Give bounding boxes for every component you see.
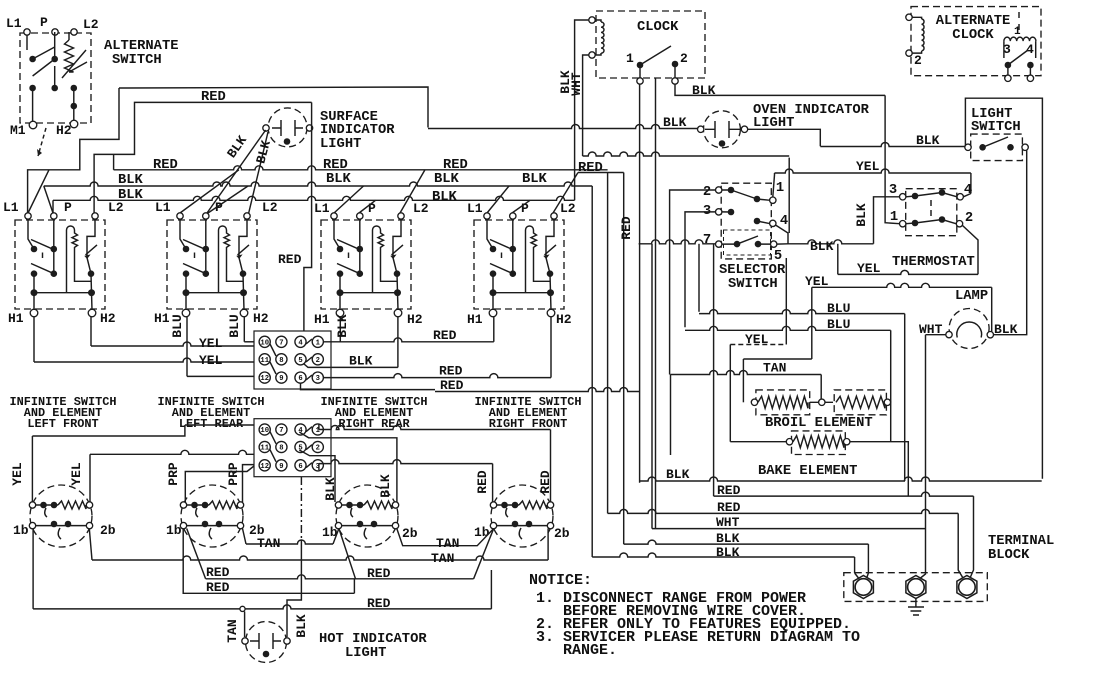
svg-text:11: 11 (260, 357, 269, 365)
svg-text:1: 1 (626, 51, 634, 66)
alternate clock motor coil (922, 19, 924, 51)
infinite switch 2 P drop (205, 219, 207, 274)
wire BLK pin5 to unit3 TL (299, 450, 335, 502)
surface unit 1 terminal 2b (86, 522, 92, 528)
wire TAN y374 (671, 371, 822, 375)
wire RED 1b-unit2 down (183, 529, 354, 594)
wire thermostat t4 connect (963, 194, 971, 197)
infinite switch 2 terminal H1 (182, 309, 190, 317)
svg-text:L2: L2 (413, 201, 429, 216)
svg-text:RED: RED (153, 158, 178, 173)
wire WHT lamp connect (926, 334, 946, 336)
surface unit 1 switch mark (58, 528, 61, 539)
wire BLU1 up (698, 244, 700, 312)
wire RED x607 down (607, 173, 609, 514)
svg-text:2: 2 (316, 445, 320, 453)
svg-text:BLK: BLK (326, 172, 352, 187)
surface unit 2 element resistor (187, 504, 209, 506)
wire RED feed lower staircase A (94, 102, 312, 213)
surface indicator light filament bars (272, 120, 303, 136)
svg-text:9: 9 (279, 463, 283, 471)
surface unit 3 element dots (346, 502, 353, 509)
svg-text:BLK: BLK (522, 172, 548, 187)
wire staircase B to L1 (28, 88, 119, 213)
svg-text:RED: RED (206, 580, 230, 595)
surface unit 3 terminal 2b (392, 522, 398, 528)
wire YEL y173 (775, 169, 971, 173)
infinite switch 4 terminal L1 (484, 213, 490, 219)
thermostat dashed box (906, 189, 957, 236)
svg-text:2: 2 (914, 53, 922, 68)
wire BLK clock to thermostat t1 (885, 95, 899, 223)
svg-text:HOT INDICATOR: HOT INDICATOR (319, 632, 427, 647)
oven indicator light left terminal (698, 126, 704, 132)
infinite switch 1 bottom bus (34, 293, 92, 310)
svg-text:8: 8 (279, 445, 283, 453)
wire YEL selector t1 up (773, 173, 775, 197)
infinite switch 1 contact dots (31, 246, 38, 253)
infinite switch 2 contact dots (183, 246, 190, 253)
infinite switch 2 terminal H2 (240, 309, 248, 317)
svg-text:12: 12 (260, 375, 269, 383)
infinite switch 3 contact arm lower (337, 264, 358, 273)
surface unit 4 switch mark (519, 528, 522, 539)
selector contact dots row1 (728, 187, 735, 194)
infinite switch 2 wiper arrow (238, 245, 250, 255)
wire clock dot2 to terminal (674, 67, 676, 78)
wire BLK hot light up (287, 540, 301, 637)
svg-text:L2: L2 (262, 200, 278, 215)
wire BLK lamp right (994, 151, 1027, 335)
selector terminal 3 (716, 209, 722, 215)
surface unit 4 limiter mark (506, 508, 508, 517)
bake element dashed box (792, 431, 846, 455)
wire RED 1b-unit2 diagonal (187, 529, 206, 579)
wire WHT riser x652 (651, 244, 653, 529)
terminal block lug 3 hex (957, 576, 977, 599)
wire term2 feed (918, 335, 926, 580)
infinite switch 2 terminal P (203, 213, 209, 219)
infinite switch box 3 dashed outline (321, 220, 411, 309)
hot indicator light left terminal (242, 638, 248, 644)
alternate switch S1 dashed box (20, 33, 91, 123)
bake element resistor (793, 436, 844, 448)
wire RED 1b bus (206, 575, 474, 579)
wire RED long left 1b-unit1 (32, 529, 34, 609)
svg-text:YEL: YEL (745, 332, 769, 347)
wire RED diag to 1b-unit4 (474, 529, 494, 579)
block1 pin 11 circled number (259, 354, 270, 365)
infinite switch 1 left column to junction (33, 274, 35, 310)
selector contact arm row2 (722, 212, 769, 224)
wire YEL2 x730 down (729, 345, 731, 442)
surface unit 1 terminal 1b (29, 522, 35, 528)
hot indicator light right terminal (284, 638, 290, 644)
terminal L2 of alternate switch (71, 29, 77, 35)
wire BLK x623 down (623, 173, 625, 545)
block1 pin 2 circled number (312, 354, 323, 365)
infinite switch 3 bottom bus (340, 293, 398, 310)
thermostat terminal 2 (956, 221, 962, 227)
svg-text:1: 1 (316, 339, 321, 347)
svg-text:10: 10 (260, 339, 269, 347)
svg-text:H2: H2 (253, 311, 269, 326)
infinite switch box 2 dashed outline (167, 220, 257, 309)
infinite switch 4 wiper arrow (545, 245, 557, 255)
svg-text:BLK: BLK (854, 203, 869, 227)
svg-text:BLK: BLK (294, 614, 309, 638)
svg-text:2: 2 (703, 185, 711, 200)
selector terminal 7 (716, 241, 722, 247)
svg-text:YEL: YEL (10, 462, 25, 486)
alternate clock coil terminal 2 (906, 50, 912, 56)
oven lamp left terminal (946, 331, 952, 337)
surface indicator light dot (284, 138, 291, 145)
surface unit 1 element dots (40, 502, 47, 509)
wire BLU H1 box2 down (186, 317, 188, 376)
block1 pin 3 circled number (312, 372, 323, 383)
wire thermostat t2 YEL down (963, 226, 979, 275)
infinite switch 3 terminal L1 (331, 213, 337, 219)
svg-text:YEL: YEL (69, 462, 84, 486)
svg-text:BLK: BLK (349, 354, 373, 369)
svg-text:WHT: WHT (716, 515, 740, 530)
terminal block lug 2 circle (908, 579, 925, 596)
wire YEL2 x786 down (785, 258, 787, 345)
svg-text:7: 7 (279, 339, 283, 347)
bus BLK upper (y187) (44, 182, 592, 186)
thermostat contact arm row1 (906, 193, 957, 197)
infinite switch 4 terminal L2 (551, 213, 557, 219)
svg-text:RED: RED (367, 596, 391, 611)
wire RED y513 (608, 509, 959, 513)
infinite switch 3 heater hairpin resistor (373, 226, 398, 293)
infinite switch 3 terminal P (357, 213, 363, 219)
alternate clock dashed box (911, 7, 1041, 76)
wire WHT y528 (652, 528, 926, 530)
broil element left terminal (751, 399, 757, 405)
oven lamp filament arc (957, 322, 982, 338)
light switch dashed box (971, 134, 1023, 161)
thermostat contact dots row2 (912, 220, 919, 227)
wire PRP block2 to unit2 TL (185, 466, 254, 502)
terminal L1 of alternate switch (24, 29, 30, 35)
diag arm box1 L1 to RED bus (28, 170, 49, 213)
wire clock t2b down (655, 78, 657, 529)
svg-text:RANGE.: RANGE. (563, 642, 617, 659)
svg-text:12: 12 (260, 463, 269, 471)
svg-text:RED: RED (717, 483, 741, 498)
wire PRP block2 to unit2 TR (243, 465, 255, 502)
terminal P of alternate switch (52, 29, 58, 35)
svg-text:2: 2 (316, 357, 320, 365)
svg-text:H2: H2 (56, 123, 72, 138)
diag arm box3 L2 to RED bus (400, 170, 425, 213)
block2 pin 3 circled number (312, 460, 323, 471)
bus BLK lower (y201) (53, 196, 575, 200)
svg-text:9: 9 (279, 375, 283, 383)
thermostat terminal 4 (957, 194, 963, 200)
svg-text:CLOCK: CLOCK (637, 20, 679, 35)
wire RED feed upper (y87) (119, 87, 428, 128)
surface unit 2 terminal 2b (237, 522, 243, 528)
svg-text:RED: RED (619, 216, 634, 240)
hot indicator light dashed circle (246, 622, 287, 663)
broil element middle terminal (819, 399, 825, 405)
wire light switch frame (965, 98, 1042, 479)
svg-text:5: 5 (774, 249, 782, 264)
surface unit 3 element resistor (342, 504, 364, 506)
svg-text:BLK: BLK (335, 314, 350, 338)
svg-text:10: 10 (260, 427, 269, 435)
wire H2 box3 down (397, 317, 399, 367)
svg-text:L2: L2 (83, 17, 99, 32)
svg-text:L2: L2 (108, 200, 124, 215)
svg-text:RED: RED (440, 378, 464, 393)
surface unit 1 terminal top-right (86, 502, 92, 508)
infinite switch 4 terminal H2 (547, 309, 555, 317)
alternate switch heater resistor (65, 40, 74, 72)
wire TAN to hot light (244, 612, 246, 638)
infinite switch 3 contact gap tick (348, 253, 350, 259)
wire BLU H1-box2 to block (187, 375, 254, 377)
surface unit 3 limiter mark (351, 508, 353, 517)
surface unit 1 element resistor (36, 504, 58, 506)
surface unit 2 element dots (191, 502, 198, 509)
svg-text:H2: H2 (407, 312, 423, 327)
infinite switch 2 contact arm upper (183, 240, 204, 249)
infinite switch 1 heater hairpin resistor (67, 226, 92, 293)
surface element unit 3 dashed circle (336, 485, 398, 547)
surface unit 3 terminal top-left (335, 502, 341, 508)
svg-text:1: 1 (1014, 26, 1021, 38)
light switch right terminal (1022, 144, 1028, 150)
svg-text:RED: RED (433, 328, 457, 343)
wire H2 box1 down (90, 317, 92, 346)
block2 pin 8 circled number (276, 441, 287, 452)
infinite switch 3 contact dots (337, 246, 344, 253)
svg-text:2b: 2b (554, 526, 570, 541)
wire RED long y392 (435, 388, 639, 392)
wire RED pin1 long to unit4 TR (319, 426, 551, 430)
wire RED diag to 1b-unit3 (339, 529, 356, 579)
wire BLK pin5 to H2 box3 (301, 361, 398, 367)
alt clock terminal 4 below (1027, 75, 1033, 81)
surface unit 2 limiter mark (196, 508, 198, 517)
wire BLK oven light right (748, 129, 820, 146)
infinite switch 4 P drop (512, 219, 514, 274)
block1 pin 1 circled number (312, 336, 323, 347)
alternate clock coil terminal 1 (906, 14, 912, 20)
svg-text:TAN: TAN (431, 551, 454, 566)
svg-text:3: 3 (316, 375, 320, 383)
terminal block lug 3 circle (959, 579, 976, 596)
wire YEL x811 down (811, 287, 813, 359)
clock dashed box (596, 11, 705, 78)
surface element unit 1 dashed circle (30, 485, 92, 547)
thermostat terminal 1 (900, 221, 906, 227)
bus RED (y170) (114, 166, 608, 170)
svg-text:H2: H2 (100, 311, 116, 326)
svg-text:BLK: BLK (434, 172, 460, 187)
block1 pin 10 circled number (259, 336, 270, 347)
wire TAN unit2-2b diag (243, 529, 247, 545)
svg-text:M1: M1 (10, 123, 26, 138)
connector block 1 outline (254, 331, 331, 389)
infinite switch 3 terminal L2 (398, 213, 404, 219)
block2 pin 7 circled number (276, 424, 287, 435)
svg-text:TERMINAL: TERMINAL (988, 534, 1054, 549)
wire broil middle link (810, 401, 833, 403)
block1 pin 4 circled number (295, 336, 306, 347)
wire TAN long y560 (92, 556, 548, 560)
wire term1 feed a (867, 544, 869, 573)
svg-text:5: 5 (298, 357, 302, 365)
selector terminal 2 (716, 187, 722, 193)
svg-text:BLK: BLK (323, 477, 338, 501)
svg-text:YEL: YEL (857, 261, 881, 276)
broil element right resistor (836, 396, 885, 408)
infinite switch 2 heater hairpin resistor (219, 226, 244, 293)
block1 pin 5 circled number (295, 354, 306, 365)
infinite switch 1 contact arm lower (31, 264, 52, 273)
surface indicator light right terminal (306, 125, 312, 131)
selector contact dots row2 (728, 209, 735, 216)
wire bake left feed (730, 441, 786, 443)
terminal H2 of alternate switch (70, 120, 78, 128)
svg-text:7: 7 (279, 427, 283, 435)
infinite switch 4 L2 leg (546, 219, 554, 293)
surface unit 2 switch mark (209, 528, 212, 539)
block2 pin 12 circled number (259, 460, 270, 471)
infinite switch 3 P drop (359, 219, 361, 274)
surface unit 1 limiter mark (45, 508, 47, 517)
broil element left dashed box (756, 390, 810, 415)
alt clock contact dots (1005, 62, 1012, 69)
clock terminal 1 below box (637, 78, 643, 84)
svg-text:4: 4 (964, 183, 972, 198)
surface unit 4 terminal 1b (490, 522, 496, 528)
svg-text:H1: H1 (314, 312, 330, 327)
block2 pin 6 circled number (295, 460, 306, 471)
svg-text:YEL: YEL (805, 274, 829, 289)
svg-text:2: 2 (965, 211, 973, 226)
svg-text:7: 7 (703, 233, 711, 248)
wire H1 box1 down (33, 317, 35, 362)
wire BLK x592 down (591, 186, 593, 557)
svg-text:THERMOSTAT: THERMOSTAT (892, 255, 975, 270)
svg-text:RED: RED (578, 161, 603, 176)
diag arm box2 P to BLK bus1 (208, 186, 248, 213)
svg-text:P: P (64, 200, 72, 215)
wire term3 feed b (970, 496, 974, 578)
wire term1 feed b2 (855, 573, 860, 580)
wire RED long up to unit4 (490, 570, 492, 609)
oven indicator light dot (719, 140, 726, 147)
alternate switch contact arm 1 (27, 32, 55, 121)
svg-text:SELECTOR: SELECTOR (719, 263, 786, 278)
infinite switch box 1 dashed outline (15, 220, 105, 309)
svg-text:TAN: TAN (436, 536, 459, 551)
svg-text:LAMP: LAMP (955, 289, 988, 304)
wire TAN long from 2b-unit1 (89, 529, 92, 561)
wire YEL H1-box1 to block (34, 358, 254, 362)
infinite switch 2 contact arm lower (183, 264, 204, 273)
block2 internal links (270, 427, 312, 468)
wire BLK y544 (624, 540, 869, 544)
svg-text:1: 1 (316, 427, 321, 435)
thermostat terminal 3 (900, 194, 906, 200)
diag arm box4 P to BLK bus2 (512, 200, 530, 213)
svg-text:H1: H1 (154, 311, 170, 326)
wire YEL y274 (838, 270, 978, 274)
surface unit 1 terminal top-left (29, 502, 35, 508)
infinite switch 1 wiper arrow (86, 245, 98, 255)
infinite switch 3 L2 dot (394, 270, 401, 277)
wire branch to RED bus (113, 154, 115, 169)
bake element left terminal (786, 439, 792, 445)
infinite switch 1 contact gap tick (42, 253, 44, 259)
oven indicator light filament bars (705, 121, 740, 138)
surface unit 2 switch contacts (187, 525, 237, 527)
infinite switch 2 bottom bus (186, 293, 244, 310)
infinite switch 2 L2 leg (239, 219, 247, 293)
svg-text:PRP: PRP (226, 462, 241, 486)
wire clock t1 down (639, 84, 641, 483)
infinite switch 4 bottom bus (493, 293, 551, 310)
wire RED stub up (353, 579, 355, 594)
wire RED y496 (714, 492, 974, 496)
svg-text:YEL: YEL (199, 353, 223, 368)
svg-text:TAN: TAN (225, 619, 240, 642)
infinite switch 4 heater hairpin resistor (526, 226, 551, 293)
surface unit 2 terminal 1b (180, 522, 186, 528)
svg-text:ALTERNATE: ALTERNATE (104, 39, 179, 54)
diag arm box2 L1 to RED bus (180, 170, 239, 213)
infinite switch 4 terminal P (510, 213, 516, 219)
diag arm box1 P to BLK bus1 (44, 186, 53, 213)
svg-text:CLOCK: CLOCK (952, 28, 994, 43)
svg-text:L1: L1 (467, 201, 483, 216)
wire BLU H2 box2 down (243, 317, 245, 342)
svg-text:BLK: BLK (666, 467, 690, 482)
light switch arm (983, 137, 1008, 147)
svg-text:1: 1 (776, 181, 784, 196)
svg-text:ALTERNATE: ALTERNATE (936, 14, 1011, 29)
wire RED pin3 to H2 box4 (318, 374, 551, 378)
wire BLK pin4 to unit3 TR (299, 432, 397, 502)
wire RED long bottom (33, 605, 491, 609)
svg-text:6: 6 (298, 375, 302, 383)
svg-text:BAKE ELEMENT: BAKE ELEMENT (758, 464, 857, 479)
wire BLK clock top-left (575, 20, 589, 200)
svg-text:6: 6 (298, 463, 302, 471)
svg-text:BLU: BLU (227, 314, 242, 337)
wire TAN y544 (246, 540, 333, 544)
broil element right dashed box (834, 390, 886, 415)
wire term1 feeds joined (866, 573, 868, 580)
svg-text:BLK: BLK (378, 474, 393, 498)
surface unit 3 switch contacts (342, 525, 392, 527)
svg-text:BLK: BLK (692, 83, 716, 98)
svg-text:YEL: YEL (856, 159, 880, 174)
clock switch contact 1 dot (637, 62, 644, 69)
alt clock terminal 3 below (1005, 75, 1011, 81)
wire H1 box3 down (339, 317, 341, 342)
svg-text:2b: 2b (100, 523, 116, 538)
oven lamp dashed circle (949, 309, 989, 349)
infinite switch 1 terminal P (51, 213, 57, 219)
